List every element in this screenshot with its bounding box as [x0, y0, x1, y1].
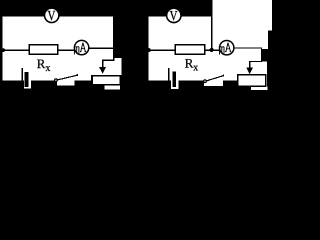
ammeter output wire (right)	[234, 47, 262, 48]
slider arrowhead (left)	[99, 67, 106, 73]
microammeter uA label A glyph (right)	[225, 43, 231, 52]
white pocket around battery thick plate (left)	[24, 72, 31, 89]
label Rx (right)	[185, 59, 193, 68]
node junction dot on left wire (right)	[147, 48, 151, 52]
white pocket under switch (right)	[204, 81, 223, 86]
switch S pivot circle (left)	[55, 79, 58, 82]
white block top right lower part (right)	[213, 31, 268, 49]
voltmeter V1 label	[48, 11, 56, 20]
microammeter uA circle (right)	[220, 41, 234, 55]
switch S pivot circle (right)	[204, 80, 207, 83]
switch S lever (right)	[206, 76, 223, 81]
microammeter uA label mu glyph (left)	[74, 46, 79, 54]
node junction dot between Rx and uA (right)	[210, 48, 214, 52]
battery long thin electrode (right)	[168, 68, 169, 81]
right wire down (right circuit)	[261, 47, 262, 62]
resistor Rx box (right)	[175, 45, 205, 55]
battery short thick electrode (left)	[25, 72, 29, 87]
white pocket under switch (left)	[57, 81, 75, 86]
voltmeter V1 circle (left)	[45, 8, 59, 22]
white pocket around battery thick plate (right)	[171, 71, 178, 89]
white sliver below rheostat box (left)	[104, 85, 120, 90]
label Rx (left)	[37, 60, 45, 69]
white sliver below rheostat box (right)	[251, 86, 268, 90]
white patch right near rheostat (right)	[262, 62, 267, 91]
switch S lever (left)	[57, 75, 77, 80]
ammeter output wire (left)	[88, 47, 115, 48]
node junction dot left wire (left)	[1, 48, 5, 52]
rheostat box R2 (right)	[238, 75, 266, 87]
right wire (left circuit)	[113, 16, 114, 61]
left wire (right circuit)	[147, 16, 148, 80]
switch S contact tick (left)	[76, 74, 78, 76]
slider arrow stem (right)	[249, 62, 250, 68]
white patch right of main area near rheostat (left)	[115, 58, 122, 84]
voltmeter V2 label	[170, 11, 178, 20]
voltmeter V2 circle (right)	[167, 8, 181, 22]
white paper main area (right)	[147, 16, 262, 80]
battery long thin electrode (left)	[22, 68, 23, 80]
wire jog to rheostat slider (left)	[102, 60, 115, 61]
slider arrow stem (left)	[102, 60, 103, 67]
left wire (left circuit)	[1, 16, 2, 80]
microammeter uA circle (left)	[74, 40, 88, 54]
resistor Rx box (left)	[29, 45, 57, 55]
slider arrowhead (right)	[246, 67, 253, 74]
microammeter uA label mu glyph (right)	[219, 47, 224, 55]
battery short thick electrode (right)	[173, 71, 177, 87]
rheostat box R2 (left)	[92, 76, 121, 85]
microammeter uA label A glyph (left)	[80, 43, 86, 52]
middle wire (left)	[1, 49, 82, 50]
switch S contact tick (right)	[223, 75, 225, 77]
white block top right (right)	[213, 0, 272, 31]
white paper main area (left)	[1, 16, 115, 80]
middle wire (right)	[148, 49, 223, 50]
voltmeter branch vertical wire (right)	[211, 16, 212, 50]
wire jog to rheostat slider (right)	[249, 61, 262, 62]
